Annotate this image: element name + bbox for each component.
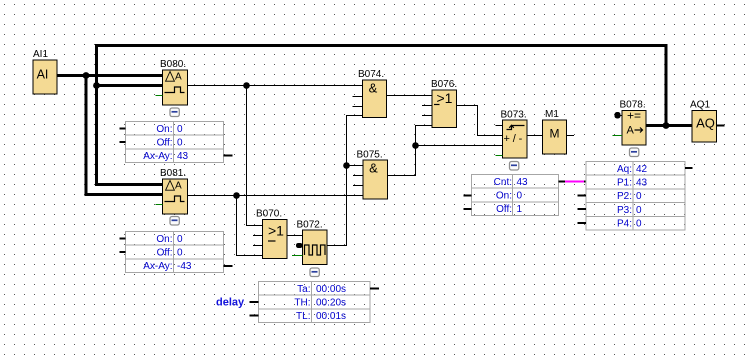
- svg-text:M1: M1: [545, 109, 559, 120]
- svg-text:0: 0: [636, 191, 642, 202]
- svg-text:43: 43: [636, 178, 648, 189]
- svg-text:B076.: B076.: [431, 79, 457, 90]
- svg-text:>1: >1: [437, 90, 453, 106]
- svg-text:AI: AI: [37, 68, 49, 82]
- svg-text:00:20s: 00:20s: [316, 298, 346, 309]
- OR gate B076: [422, 79, 457, 128]
- svg-text:TH:: TH:: [294, 298, 310, 309]
- block name label "delay" of B072: [216, 297, 245, 309]
- svg-text:Cnt:: Cnt:: [494, 177, 512, 188]
- svg-text:A: A: [175, 181, 182, 192]
- svg-text:Off:: Off:: [496, 204, 512, 215]
- svg-text:1: 1: [517, 204, 523, 215]
- svg-text:On:: On:: [496, 191, 512, 202]
- svg-text:42: 42: [636, 164, 648, 175]
- svg-text:0: 0: [177, 234, 183, 245]
- svg-text:&: &: [369, 80, 378, 95]
- wire B074.out to B076.In1: [387, 95, 433, 97]
- parameter box of B078 (Aq/P1-P4): [578, 162, 693, 231]
- wire B075.out up to B076.In4: [388, 126, 433, 176]
- collapse button of B081: [170, 217, 179, 226]
- wire analog B078.out to AQ1.In: [646, 124, 693, 127]
- wire B080.out branch down to B070.In1: [247, 86, 264, 226]
- analog output AQ1: [690, 100, 717, 143]
- parameter box of B080 (On/Off/Ax-Ay): [120, 122, 233, 163]
- svg-text:0: 0: [177, 248, 183, 259]
- svg-text:P4:: P4:: [617, 219, 632, 230]
- svg-text:00:00s: 00:00s: [316, 284, 346, 295]
- svg-text:TL:: TL:: [296, 311, 310, 322]
- svg-text:A: A: [175, 72, 182, 83]
- wire B070.out to B072.In1: [287, 235, 303, 237]
- wire B080.out to B074.In1: [188, 85, 363, 87]
- wire B081.out to B075.In4: [188, 195, 363, 197]
- node junction on B072 output riser: [343, 162, 350, 169]
- analog input AI1: [33, 49, 57, 94]
- node junction on AI1 output: [83, 72, 90, 79]
- svg-text:On:: On:: [156, 124, 172, 135]
- pulse generator B072: [292, 220, 327, 265]
- AND gate B074: [353, 69, 387, 118]
- node junction on B075 output riser: [412, 142, 419, 149]
- svg-text:Off:: Off:: [157, 138, 173, 149]
- node junction on B080 output: [243, 82, 250, 89]
- analog comparator B080: [156, 59, 188, 105]
- wire B073.out to M1.In: [527, 135, 543, 137]
- svg-text:-43: -43: [177, 261, 192, 272]
- wire analog feedback branch to B080.In2: [97, 84, 165, 87]
- svg-text:+/-: +/-: [504, 133, 526, 145]
- wire B076.out to B073.In2: [457, 106, 503, 136]
- up/down counter B073: [496, 110, 528, 159]
- collapse button of B073: [510, 162, 519, 171]
- svg-text:On:: On:: [156, 234, 172, 245]
- collapse button of B078: [630, 148, 639, 157]
- svg-text:B080.: B080.: [160, 59, 186, 70]
- analog multiplexer B078: [613, 100, 647, 146]
- svg-text:43: 43: [177, 151, 189, 162]
- svg-text:0: 0: [517, 191, 523, 202]
- OR gate B070: [253, 209, 287, 259]
- svg-text:43: 43: [517, 177, 529, 188]
- svg-text:Ax-Ay:: Ax-Ay:: [143, 261, 172, 272]
- svg-text:0: 0: [636, 205, 642, 216]
- svg-text:M: M: [550, 127, 560, 141]
- svg-text:B072.: B072.: [297, 220, 323, 231]
- wire AQ1 output stub: [717, 125, 725, 127]
- svg-text:Off:: Off:: [157, 248, 173, 259]
- wire M1 output stub: [567, 135, 575, 137]
- svg-text:P1:: P1:: [617, 178, 632, 189]
- svg-text:0: 0: [636, 219, 642, 230]
- svg-text:B081.: B081.: [160, 168, 186, 179]
- wire analog AI1.out to B080.In1: [57, 74, 164, 77]
- wire B081.out branch down to B070.In4: [237, 196, 264, 256]
- node junction on B081 output: [233, 192, 240, 199]
- wire analog branch down to B081.In2: [86, 76, 164, 195]
- collapse button of B080: [170, 108, 179, 117]
- svg-text:>1: >1: [268, 223, 284, 239]
- svg-text:B074.: B074.: [358, 69, 384, 80]
- wire B072.out up to B074.In4: [327, 116, 363, 246]
- svg-text:+=: +=: [627, 109, 641, 123]
- svg-text:B073.: B073.: [501, 110, 527, 121]
- svg-text:A: A: [627, 125, 635, 137]
- svg-text:0: 0: [177, 138, 183, 149]
- parameter box of B081 (On/Off/Ax-Ay): [120, 232, 233, 273]
- AND gate B075: [353, 150, 388, 200]
- collapse button of B072: [310, 268, 319, 277]
- svg-text:P3:: P3:: [617, 205, 632, 216]
- node junction on feedback line: [93, 82, 100, 89]
- svg-text:AQ: AQ: [696, 116, 715, 131]
- svg-text:B075.: B075.: [357, 150, 383, 161]
- parameter box of B073 (Cnt/On/Off): [464, 175, 566, 216]
- parameter box of B072 (Ta/TH/TL): [250, 282, 380, 323]
- svg-text:delay: delay: [216, 297, 245, 309]
- node junction on B078 output: [663, 122, 670, 129]
- parameter reference line B073.Cnt to B078.P1 (magenta): [565, 181, 586, 183]
- wire branch to B073.In3: [416, 145, 503, 147]
- svg-text:Ta:: Ta:: [297, 284, 310, 295]
- wire branch to B075.In1: [347, 165, 364, 167]
- marker M1: [543, 109, 567, 154]
- svg-text:Aq:: Aq:: [617, 164, 632, 175]
- analog comparator B081: [156, 168, 188, 214]
- wire analog feedback B078.out up over top to B081.In1: [97, 46, 667, 185]
- svg-text:AQ1: AQ1: [690, 100, 710, 111]
- svg-text:0: 0: [177, 124, 183, 135]
- svg-text:&: &: [369, 160, 378, 175]
- svg-text:P2:: P2:: [617, 191, 632, 202]
- svg-text:B070.: B070.: [256, 209, 282, 220]
- svg-text:AI1: AI1: [33, 49, 48, 60]
- svg-text:00:01s: 00:01s: [316, 311, 346, 322]
- svg-text:Ax-Ay:: Ax-Ay:: [143, 151, 172, 162]
